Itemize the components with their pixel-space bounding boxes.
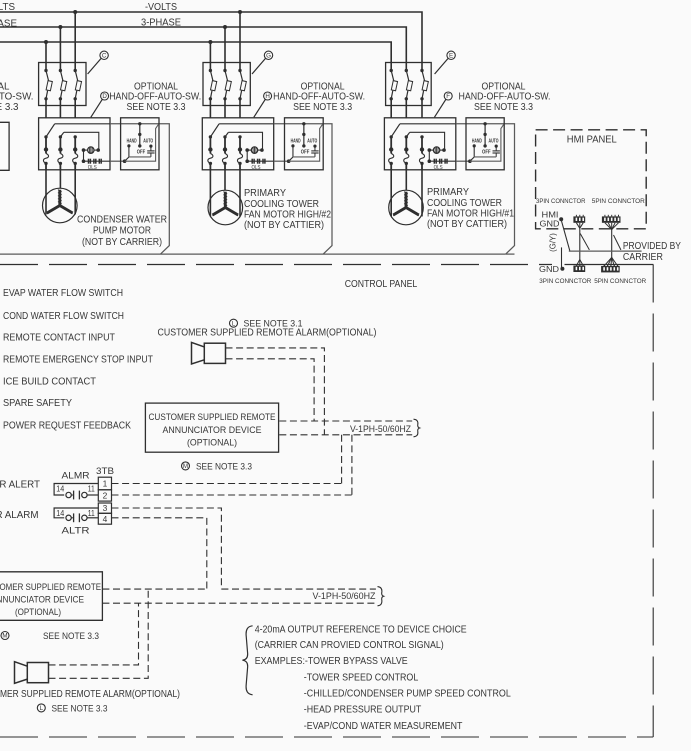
svg-text:HAND-OFF-AUTO-SW.: HAND-OFF-AUTO-SW. <box>273 91 365 102</box>
circled label D <box>101 92 109 100</box>
HOA center pole <box>483 122 486 125</box>
HAND contact and blade <box>291 144 294 147</box>
svg-text:SEE NOTE 3.3: SEE NOTE 3.3 <box>196 461 252 471</box>
dashed wire annunciator to terminal 4 <box>102 588 206 590</box>
svg-text:H: H <box>265 93 269 100</box>
cut-off HOA box of off-screen column at left edge <box>0 122 9 170</box>
OLS overload auxiliary contacts <box>88 159 90 164</box>
svg-text:EVAP WATER FLOW SWITCH: EVAP WATER FLOW SWITCH <box>3 288 123 299</box>
dashed supply wire lower 2 <box>102 602 376 604</box>
OLS overload auxiliary contacts <box>433 159 435 164</box>
overload heater element <box>43 154 48 164</box>
dashed wire terminal 1 <box>112 483 342 485</box>
HMI PANEL dashed box <box>536 130 647 229</box>
lower contact dot <box>238 162 241 165</box>
svg-text:F: F <box>446 93 450 100</box>
svg-text:CUSTOMER SUPPLIED REMOTE: CUSTOMER SUPPLIED REMOTE <box>149 411 276 422</box>
overload heater element <box>419 154 424 164</box>
svg-text:E 3.3: E 3.3 <box>0 102 19 113</box>
OLS overload auxiliary contacts <box>251 159 253 164</box>
svg-text:PUMP MOTOR: PUMP MOTOR <box>93 226 151 237</box>
contactor coil <box>433 147 439 153</box>
lower contact dot <box>44 162 47 165</box>
fuse element C3 <box>74 69 77 72</box>
alarm horn cone <box>15 662 28 684</box>
wire phase1 blade to HOA common and riser to control panel <box>55 123 110 125</box>
svg-text:SEE NOTE 3.3: SEE NOTE 3.3 <box>43 631 99 641</box>
fuse element E3 <box>420 69 423 72</box>
svg-text:CONTROL PANEL: CONTROL PANEL <box>345 279 418 290</box>
wire OLS to HOA <box>429 160 456 162</box>
svg-text:(NOT BY CATTIER): (NOT BY CATTIER) <box>427 219 507 230</box>
alarm horn body <box>204 343 225 363</box>
AUTO contact with capacitor <box>149 145 152 148</box>
svg-text:3PIN CONNCTOR: 3PIN CONNCTOR <box>539 278 591 285</box>
HMI GND terminal dot <box>559 217 563 221</box>
switch blade phase 1 <box>210 124 219 137</box>
junction dot <box>238 147 242 151</box>
wire coil to OLS contacts <box>246 150 248 161</box>
svg-text:-HEAD PRESSURE OUTPUT: -HEAD PRESSURE OUTPUT <box>304 705 422 716</box>
leader line for E <box>435 59 448 75</box>
circled label H <box>264 92 272 100</box>
svg-text:14: 14 <box>56 484 64 494</box>
fused disconnect switch box C <box>39 63 86 106</box>
leader line for H <box>254 99 265 117</box>
alarm horn cone <box>192 342 205 364</box>
junction dot <box>389 147 393 151</box>
green-yellow ground wire <box>561 247 563 269</box>
svg-text:SEE NOTE 3.3: SEE NOTE 3.3 <box>52 703 108 713</box>
svg-text:3: 3 <box>103 503 108 513</box>
lower contact dot <box>59 162 62 165</box>
svg-text:OLS: OLS <box>88 165 97 171</box>
wire OLS to HOA <box>247 160 274 162</box>
circled label C <box>100 51 108 59</box>
svg-text:ANNUNCIATOR DEVICE: ANNUNCIATOR DEVICE <box>0 593 84 604</box>
contactor box <box>202 118 273 170</box>
dashed wire horn top <box>226 348 325 435</box>
svg-text:GND: GND <box>539 264 559 274</box>
5-pin connector <box>601 266 620 272</box>
wire auto-hand link <box>129 156 151 158</box>
overload heater element <box>222 154 227 164</box>
leader line for F <box>434 99 446 117</box>
wire phase1 blade to HOA common and riser to control panel <box>400 123 456 125</box>
svg-text:CONDENSER WATER: CONDENSER WATER <box>77 215 167 226</box>
wire to motor <box>59 163 61 170</box>
wire to motor <box>45 163 47 170</box>
overload heater element <box>404 154 409 164</box>
dashed wire terminal 2 <box>112 494 352 496</box>
svg-text:3-PHASE: 3-PHASE <box>141 18 181 29</box>
junction dot <box>420 147 424 151</box>
wire to motor <box>390 163 392 170</box>
junction dot <box>73 147 77 151</box>
motor phase wires <box>45 170 47 214</box>
circled note L lower <box>37 704 45 712</box>
relay contact ALMR <box>54 484 98 496</box>
svg-text:COOLING TOWER: COOLING TOWER <box>244 199 319 210</box>
fuse element E1 <box>390 69 393 72</box>
overload heater element <box>208 154 213 164</box>
svg-text:AUTO: AUTO <box>143 139 153 145</box>
svg-text:HAND: HAND <box>291 139 301 145</box>
AUTO contact with capacitor <box>313 145 316 148</box>
leader line for G <box>252 59 265 75</box>
junction dot <box>58 147 62 151</box>
svg-text:ALTR: ALTR <box>62 525 90 535</box>
contactor box <box>39 118 110 170</box>
wire to motor <box>421 163 423 170</box>
svg-text:COOLING TOWER: COOLING TOWER <box>427 198 502 209</box>
contactor coil <box>88 147 94 153</box>
overload heater element <box>73 154 78 164</box>
svg-text:11: 11 <box>88 508 95 518</box>
svg-text:PROVIDED BY: PROVIDED BY <box>623 241 681 252</box>
svg-text:HAND: HAND <box>472 139 482 145</box>
lower contact dot <box>420 162 423 165</box>
fuse element E2 <box>405 69 408 72</box>
svg-text:-TOWER SPEED CONTROL: -TOWER SPEED CONTROL <box>304 673 419 684</box>
wire auto-hand link <box>474 156 496 158</box>
wire phase1 blade to HOA common and riser to control panel <box>219 123 274 125</box>
motor circle <box>208 190 243 225</box>
wire OLS return loop to riser <box>470 124 504 161</box>
svg-text:PRIMARY: PRIMARY <box>427 187 469 198</box>
HAND contact and blade <box>473 144 476 147</box>
contact dot <box>59 135 62 138</box>
svg-text:HAND: HAND <box>127 139 137 145</box>
svg-text:SPARE SAFETY: SPARE SAFETY <box>3 398 72 409</box>
wire to motor <box>209 163 211 170</box>
svg-text:4-20mA OUTPUT REFERENCE TO DEV: 4-20mA OUTPUT REFERENCE TO DEVICE CHOICE <box>255 624 467 635</box>
svg-text:ASE: ASE <box>0 19 17 30</box>
svg-text:G: G <box>266 53 271 60</box>
svg-text:V-1PH-50/60HZ: V-1PH-50/60HZ <box>350 423 411 434</box>
svg-text:OFF: OFF <box>482 149 491 155</box>
wire OLS return loop to riser <box>125 124 159 161</box>
wire blade2 to coil <box>64 132 99 150</box>
svg-text:LTS: LTS <box>0 2 15 13</box>
svg-text:3PIN CONNCTOR: 3PIN CONNCTOR <box>536 198 586 205</box>
overload heater element <box>58 154 63 164</box>
dashed supply wire upper 2 <box>279 434 412 436</box>
HAND contact and blade <box>127 144 130 147</box>
svg-text:HAND-OFF-AUTO-SW.: HAND-OFF-AUTO-SW. <box>109 91 201 102</box>
motor winding arms <box>405 192 408 208</box>
contactor box <box>384 118 455 170</box>
svg-text:REMOTE EMERGENCY STOP INPUT: REMOTE EMERGENCY STOP INPUT <box>3 354 153 365</box>
svg-text:AUTO: AUTO <box>489 139 499 145</box>
switch blade phase 1 <box>46 124 55 137</box>
motor circle <box>43 188 78 223</box>
wire control bus to panel <box>0 253 506 255</box>
svg-text:L: L <box>232 320 236 327</box>
dashed wire horn lower top <box>49 603 139 665</box>
svg-text:OFF: OFF <box>301 149 310 155</box>
svg-text:CUSTOMER SUPPLIED REMOTE ALARM: CUSTOMER SUPPLIED REMOTE ALARM(OPTIONAL) <box>158 327 377 338</box>
contact dot <box>405 135 408 138</box>
motor phase wires <box>209 170 211 216</box>
fuse element C1 <box>44 69 47 72</box>
brace upper supply <box>414 419 420 437</box>
wire blade2 to coil <box>228 132 262 150</box>
circled label F <box>444 92 452 100</box>
motor circle <box>389 190 424 225</box>
3-pin connector <box>573 266 585 272</box>
motor winding arms <box>58 190 61 206</box>
contact dot <box>74 135 77 138</box>
wire auto-hand link <box>293 156 315 158</box>
svg-text:HAND-OFF-AUTO-SW.: HAND-OFF-AUTO-SW. <box>459 91 551 102</box>
dashed supply wire lower 1 <box>221 588 376 590</box>
fused disconnect switch box E <box>386 63 432 106</box>
svg-text:L: L <box>40 705 44 712</box>
brace 4-20mA outputs <box>242 626 252 695</box>
svg-text:(OPTIONAL): (OPTIONAL) <box>187 436 237 447</box>
overload heater element <box>237 154 242 164</box>
lower contact dot <box>223 162 226 165</box>
svg-text:PRIMARY: PRIMARY <box>244 188 286 199</box>
svg-text:SEE NOTE 3.3: SEE NOTE 3.3 <box>293 102 352 113</box>
power bus -VOLTS line <box>0 12 422 70</box>
hand-off-auto switch box <box>285 118 324 170</box>
3-pin connector <box>573 216 585 222</box>
relay contact ALTR <box>54 508 98 518</box>
svg-text:(G/Y): (G/Y) <box>549 233 558 252</box>
brace lower supply <box>378 587 384 606</box>
power bus 3-PHASE line 3 <box>0 42 391 70</box>
lower contact dot <box>209 162 212 165</box>
fuse element G3 <box>238 69 241 72</box>
svg-text:SEE NOTE 3.3: SEE NOTE 3.3 <box>474 102 533 113</box>
dashed riser 3TB-2 <box>351 435 353 495</box>
svg-text:ICE BUILD CONTACT: ICE BUILD CONTACT <box>3 377 96 388</box>
svg-text:GND: GND <box>540 219 560 229</box>
wire coil to OLS contacts <box>428 150 430 161</box>
svg-text:5PIN CONNCTOR: 5PIN CONNCTOR <box>592 198 645 205</box>
wire to motor <box>239 163 241 170</box>
contact dot <box>44 135 47 138</box>
switch blade phase 2 <box>60 132 63 137</box>
PROVIDED BY CARRIER reference line <box>569 250 642 252</box>
svg-text:OLS: OLS <box>434 165 443 171</box>
motor phase wires <box>390 170 392 216</box>
fuse element G2 <box>223 69 226 72</box>
contact dot <box>209 135 212 138</box>
svg-text:OLS: OLS <box>252 165 261 171</box>
svg-text:M: M <box>2 633 7 640</box>
svg-text:1: 1 <box>103 479 108 489</box>
fuse element C2 <box>59 69 62 72</box>
dashed wire terminal 4 <box>112 518 207 589</box>
junction dot <box>404 147 408 151</box>
circled label E <box>447 51 455 59</box>
wire 5pin harness <box>611 230 613 258</box>
svg-text:4: 4 <box>103 514 108 524</box>
leader line for C <box>88 59 101 75</box>
svg-text:SEE NOTE 3.3: SEE NOTE 3.3 <box>127 102 186 113</box>
wire OLS return loop to riser <box>289 124 323 161</box>
circled note M see note 3.3 <box>182 462 190 470</box>
svg-text:5PIN CONNCTOR: 5PIN CONNCTOR <box>594 278 646 285</box>
motor winding arms <box>224 192 227 208</box>
green-yellow ground wire leader <box>562 221 570 251</box>
dashed wire horn lower bottom <box>49 589 149 678</box>
svg-text:(NOT BY CARRIER): (NOT BY CARRIER) <box>82 237 162 248</box>
svg-text:ANNUNCIATOR DEVICE: ANNUNCIATOR DEVICE <box>163 424 262 435</box>
leader diagonal 1 <box>580 234 589 250</box>
bus junction dots and phase drop wires <box>238 10 242 14</box>
svg-text:ER ALARM: ER ALARM <box>0 510 39 521</box>
circled label G <box>264 51 272 59</box>
contact dot <box>238 135 241 138</box>
svg-text:ALMR: ALMR <box>62 471 90 481</box>
dashed supply wire upper 1 <box>279 420 412 422</box>
svg-text:-EVAP/COND WATER MEASUREMENT: -EVAP/COND WATER MEASUREMENT <box>304 721 463 732</box>
contact dot <box>420 135 423 138</box>
svg-text:(OPTIONAL): (OPTIONAL) <box>15 606 61 617</box>
svg-text:AUTO: AUTO <box>307 139 317 145</box>
svg-text:E: E <box>449 53 453 60</box>
switch blade phase 2 <box>225 132 228 137</box>
svg-text:CUSTOMER SUPPLIED REMOTE: CUSTOMER SUPPLIED REMOTE <box>0 581 101 592</box>
hand-off-auto switch box <box>466 118 504 170</box>
wire to motor <box>224 163 226 170</box>
junction dot <box>44 147 48 151</box>
svg-text:(CARRIER CAN PROVIED CONTROL S: (CARRIER CAN PROVIED CONTROL SIGNAL) <box>255 640 444 651</box>
5-pin connector <box>602 216 621 222</box>
svg-text:REMOTE CONTACT INPUT: REMOTE CONTACT INPUT <box>3 333 115 344</box>
overload heater element <box>389 154 394 164</box>
wire to motor <box>405 163 407 170</box>
lower contact dot <box>405 162 408 165</box>
svg-text:V-1PH-50/60HZ: V-1PH-50/60HZ <box>313 590 376 601</box>
svg-text:COND WATER FLOW SWITCH: COND WATER FLOW SWITCH <box>3 311 124 322</box>
svg-text:FAN MOTOR HIGH/#2: FAN MOTOR HIGH/#2 <box>244 209 331 220</box>
svg-text:EXAMPLES:-TOWER BYPASS VALVE: EXAMPLES:-TOWER BYPASS VALVE <box>255 656 408 667</box>
contactor coil <box>251 147 257 153</box>
svg-text:FAN MOTOR HIGH/#1: FAN MOTOR HIGH/#1 <box>427 208 514 219</box>
alarm horn body <box>27 663 48 683</box>
lower contact dot <box>390 162 393 165</box>
control panel dashed top boundary <box>0 264 552 266</box>
switch blade phase 1 <box>391 124 400 137</box>
contact dot <box>390 135 393 138</box>
dashed riser 3TB-1 <box>341 435 343 484</box>
control panel dashed bottom boundary <box>0 736 653 738</box>
svg-text:OFF: OFF <box>137 149 146 155</box>
lower contact dot <box>74 162 77 165</box>
wire blade2 to coil <box>410 132 445 150</box>
HOA center pole <box>138 122 141 125</box>
svg-text:TO-SW.: TO-SW. <box>0 91 34 102</box>
svg-text:ER ALERT: ER ALERT <box>0 479 40 490</box>
power bus 3-PHASE line 2 <box>0 27 406 70</box>
annunciator device box upper <box>145 403 278 452</box>
svg-text:HMI PANEL: HMI PANEL <box>567 135 618 146</box>
svg-text:11: 11 <box>88 484 95 494</box>
svg-text:(NOT BY CATTIER): (NOT BY CATTIER) <box>244 220 324 231</box>
fuse element G1 <box>209 69 212 72</box>
hand-off-auto switch box <box>121 118 159 170</box>
dashed wire terminal 3 <box>112 508 222 589</box>
svg-text:M: M <box>183 463 188 470</box>
contact dot <box>223 135 226 138</box>
fused disconnect switch box G <box>203 63 250 106</box>
circled note M lower <box>1 632 9 640</box>
leader diagonal 2 <box>614 235 621 250</box>
annunciator device box lower cut at left edge <box>0 572 102 621</box>
svg-text:POWER REQUEST FEEDBACK: POWER REQUEST FEEDBACK <box>3 420 131 431</box>
junction dot <box>208 147 212 151</box>
svg-text:3TB: 3TB <box>96 466 114 476</box>
svg-text:-CHILLED/CONDENSER PUMP SPEED: -CHILLED/CONDENSER PUMP SPEED CONTROL <box>304 689 511 700</box>
terminal block 3TB cells <box>98 477 111 490</box>
svg-text:MER SUPPLIED REMOTE ALARM(OPTI: MER SUPPLIED REMOTE ALARM(OPTIONAL) <box>0 689 180 700</box>
control panel top boundary right solid segment <box>565 264 654 266</box>
AUTO contact with capacitor <box>495 145 498 148</box>
switch blade phase 2 <box>406 132 409 137</box>
svg-text:CARRIER: CARRIER <box>623 252 663 263</box>
wire coil to OLS contacts <box>83 150 85 161</box>
svg-text:2: 2 <box>103 490 108 500</box>
svg-text:D: D <box>102 93 107 100</box>
control panel dashed right boundary <box>652 265 654 738</box>
lower GND terminal dot <box>560 267 564 271</box>
junction dot <box>223 147 227 151</box>
HOA center pole <box>302 122 305 125</box>
wire OLS to HOA <box>84 160 111 162</box>
svg-text:-VOLTS: -VOLTS <box>145 2 177 13</box>
svg-text:14: 14 <box>56 508 64 518</box>
bus junction dots and phase drop wires <box>73 10 77 14</box>
wire to motor <box>74 163 76 170</box>
svg-text:C: C <box>102 53 107 60</box>
wire 3pin harness <box>579 228 581 259</box>
circled note L see note 3.1 <box>230 319 238 327</box>
leader line for D <box>91 99 103 117</box>
dashed wire horn bottom <box>226 359 315 421</box>
